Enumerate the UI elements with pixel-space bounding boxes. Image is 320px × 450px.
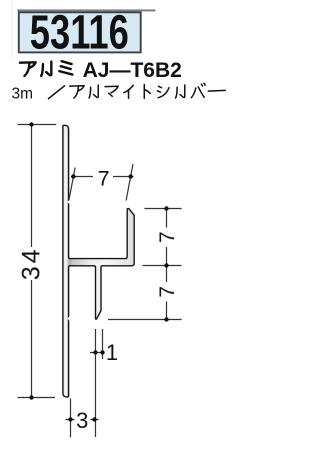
svg-text:3: 3 <box>76 408 88 433</box>
svg-text:34: 34 <box>17 246 45 280</box>
svg-text:7: 7 <box>98 166 110 190</box>
svg-text:3m: 3m <box>12 86 34 103</box>
svg-text:1: 1 <box>106 340 118 365</box>
svg-text:7: 7 <box>156 286 179 298</box>
svg-text:AJ—T6B2: AJ—T6B2 <box>83 59 182 82</box>
svg-text:53116: 53116 <box>30 6 129 60</box>
svg-text:7: 7 <box>156 231 179 243</box>
